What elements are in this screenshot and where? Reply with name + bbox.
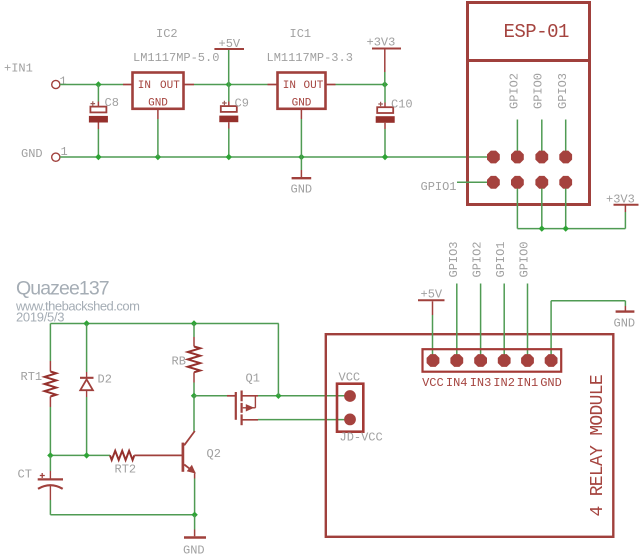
svg-text:LM1117MP-3.3: LM1117MP-3.3 — [267, 51, 353, 65]
bottom rail wire — [50, 514, 194, 516]
svg-text:2019/5/3: 2019/5/3 — [16, 310, 64, 325]
wire +5V to VCC pad — [432, 315, 434, 361]
svg-text:RT2: RT2 — [115, 463, 137, 477]
svg-text:GND: GND — [614, 317, 636, 331]
pin stub RB bottom — [193, 372, 195, 382]
junction C10 at rail — [382, 154, 388, 160]
wire junction down to C8 — [97, 85, 99, 102]
pin 1 of GND connector — [52, 153, 60, 161]
jumper pad JD-VCC — [344, 414, 356, 426]
junction RT1 at base rail — [47, 452, 53, 458]
wire ESP pad row2 col3 down — [541, 189, 543, 229]
svg-text:IC1: IC1 — [290, 27, 312, 41]
wire GPIO1 to pad — [457, 181, 493, 183]
jumper pad VCC — [344, 390, 356, 402]
svg-text:VCC: VCC — [339, 371, 361, 385]
ESP-01 pad row2 col1 — [487, 176, 500, 189]
junction IC2 GND at rail — [155, 154, 161, 160]
pin stub IC2 OUT — [184, 84, 195, 86]
wire +3V3 node down to C10 — [384, 85, 386, 103]
svg-text:GPIO1: GPIO1 — [421, 180, 457, 194]
wire rail down to RT1 — [49, 324, 51, 362]
wire GPIO3 to IN4 pad — [456, 284, 458, 361]
wire ESP pad row2 col2 down — [516, 189, 518, 229]
svg-text:GPIO3: GPIO3 — [556, 73, 570, 109]
svg-text:IN: IN — [283, 80, 296, 92]
capacitor CT plus sign — [40, 473, 45, 478]
ESP-01 pad row1 col1 — [487, 151, 500, 164]
transistor Q2 base bar — [182, 443, 185, 472]
supply symbol +5V relay bar — [418, 299, 445, 301]
wire ESP bottom horizontal to +3V3 — [517, 228, 625, 230]
wire gate node down to Q2 collector — [193, 396, 195, 432]
pin stub IC2 IN — [123, 84, 133, 86]
wire IC1 GND to rail — [300, 119, 302, 157]
svg-text:+3V3: +3V3 — [367, 36, 396, 50]
relay pad IN4 — [450, 354, 463, 367]
supply symbol +3V3 right bar — [614, 204, 639, 206]
junction emitter at bottom rail — [191, 512, 197, 518]
capacitor C10 plus sign — [378, 102, 383, 107]
relay pad GND — [545, 354, 558, 367]
mosfet Q1 source pin — [242, 419, 258, 421]
svg-text:IC2: IC2 — [156, 27, 178, 41]
voltage regulator IC2 body — [133, 73, 184, 109]
svg-text:C8: C8 — [105, 96, 119, 110]
wire +3V3 to rail — [384, 72, 386, 85]
resistor RT1 — [45, 372, 57, 397]
module 4 relay body — [326, 334, 614, 537]
svg-text:IN4: IN4 — [446, 376, 468, 390]
wire rail down to RB — [193, 324, 195, 338]
svg-text:VCC: VCC — [422, 376, 444, 390]
pin stub Q1 gate — [227, 395, 235, 397]
wire +IN1 to IC2 IN — [60, 84, 123, 86]
wire ESP pad row2 col4 down — [565, 189, 567, 229]
ESP-01 pad row1 col3 — [535, 151, 548, 164]
capacitor C9 bottom plate — [219, 116, 238, 123]
svg-text:Q2: Q2 — [207, 447, 221, 461]
wire rail down to GND symbol — [300, 157, 302, 170]
svg-text:GPIO0: GPIO0 — [532, 73, 546, 109]
svg-text:IN: IN — [138, 80, 151, 92]
ground symbol bar right — [616, 310, 635, 312]
svg-text:GPIO0: GPIO0 — [518, 241, 532, 277]
svg-text:C10: C10 — [391, 98, 413, 112]
svg-text:GND: GND — [292, 98, 312, 110]
relay pad IN1 — [521, 354, 534, 367]
mosfet Q1 channel segment bottom — [241, 414, 243, 425]
junction at C8 top — [95, 81, 101, 87]
capacitor C8 bottom plate — [89, 116, 108, 123]
wire IC2 GND to rail — [157, 119, 159, 157]
ESP-01 pad row2 col2 — [511, 176, 524, 189]
diode D2 triangle — [80, 379, 93, 390]
svg-text:GPIO2: GPIO2 — [507, 73, 521, 109]
capacitor C10 top plate — [377, 107, 393, 113]
transistor Q2 emitter diagonal — [184, 465, 195, 473]
wire IC1 OUT to +3V3 node — [336, 84, 385, 86]
ESP-01 pad row1 col2 — [511, 151, 524, 164]
pin stub IC1 IN — [268, 84, 278, 86]
svg-text:GPIO3: GPIO3 — [447, 241, 461, 277]
ESP-01 divider line — [468, 59, 590, 62]
svg-text:4 RELAY MODULE: 4 RELAY MODULE — [588, 375, 608, 516]
junction C8 at rail — [95, 154, 101, 160]
supply symbol +3V3 bar — [372, 48, 401, 50]
wire +5V node down to C9 — [228, 85, 230, 102]
wire GPIO3 label to pad — [565, 120, 567, 158]
svg-text:IN1: IN1 — [517, 376, 539, 390]
wire GND pad up — [550, 301, 552, 361]
wire GND down to symbol — [624, 301, 626, 306]
mosfet Q1 body link vertical — [254, 396, 256, 408]
svg-text:LM1117MP-5.0: LM1117MP-5.0 — [133, 51, 219, 65]
svg-text:CT: CT — [18, 468, 32, 482]
diode D2 cathode stub — [86, 372, 88, 378]
wire top rail down to drain node — [277, 324, 279, 396]
junction RB top — [191, 320, 197, 326]
relay pad IN2 — [498, 354, 511, 367]
wire gate node to Q1 gate — [194, 395, 227, 397]
resistor RB — [188, 347, 200, 373]
wire D2 to base rail — [86, 397, 88, 455]
pin RT2 to Q2 base — [134, 454, 182, 456]
svg-text:GND: GND — [291, 183, 313, 197]
ground symbol stub right — [624, 306, 626, 311]
relay pad IN3 — [474, 354, 487, 367]
svg-text:RT1: RT1 — [21, 370, 43, 384]
svg-text:OUT: OUT — [160, 80, 180, 92]
resistor RT2 — [110, 451, 134, 460]
svg-text:C9: C9 — [235, 97, 249, 111]
wire RB to gate node — [193, 383, 195, 396]
wire GPIO0 label to pad — [541, 120, 543, 158]
svg-text:RB: RB — [172, 355, 186, 369]
wire C10 to ground rail — [384, 123, 386, 129]
pin stub RB top — [193, 337, 195, 347]
relay pad VCC — [427, 354, 440, 367]
junction D2 top — [83, 320, 89, 326]
svg-text:D2: D2 — [98, 373, 112, 387]
wire RT1 to base rail — [49, 407, 51, 455]
mosfet Q1 drain pin — [242, 395, 258, 397]
mosfet Q1 body arrow — [246, 404, 255, 411]
pin stub RT1 bottom — [49, 397, 51, 408]
pin stub IC1 OUT — [326, 84, 336, 86]
junction D2 at base rail — [83, 452, 89, 458]
mosfet Q1 gate bar — [235, 392, 237, 420]
pin stub IC2 GND — [157, 109, 159, 119]
pin 1 of +IN1 connector — [52, 80, 60, 88]
voltage regulator IC1 body — [278, 73, 326, 109]
capacitor CT bottom stub — [49, 486, 51, 501]
wire drain node to VCC pad — [258, 395, 350, 397]
capacitor C8 plus sign — [91, 101, 96, 106]
mosfet Q1 channel segment middle — [241, 403, 243, 413]
junction drain node — [275, 393, 281, 399]
capacitor CT top stub — [49, 471, 51, 479]
ground symbol stub — [300, 170, 302, 177]
diode D2 anode stub — [86, 390, 88, 397]
wire IC2 OUT to +5V node — [194, 84, 268, 86]
junction col3 bottom — [539, 225, 545, 231]
svg-text:GND: GND — [183, 544, 205, 556]
capacitor C10 bottom plate — [376, 116, 395, 123]
capacitor CT curved plate — [38, 485, 63, 489]
wire GND horizontal to right — [551, 300, 625, 302]
wire CT to bottom rail — [49, 500, 51, 515]
svg-text:JD-VCC: JD-VCC — [340, 431, 383, 445]
capacitor C9 plus sign — [222, 101, 227, 106]
jumper connector JD-VCC outline — [337, 384, 363, 432]
capacitor C9 top plate — [221, 106, 237, 112]
supply pin stub +3V3 right — [624, 206, 626, 213]
wire up to +3V3 supply — [624, 212, 626, 229]
wire GPIO0 to IN1 pad — [527, 284, 529, 361]
svg-text:IN2: IN2 — [493, 376, 515, 390]
svg-text:Q1: Q1 — [246, 372, 260, 386]
transistor Q2 emitter arrow — [187, 465, 196, 474]
svg-text:+IN1: +IN1 — [4, 62, 33, 76]
junction +3V3 node — [382, 81, 388, 87]
mosfet Q1 body link horizontal — [243, 407, 256, 409]
wire base rail down to CT — [49, 455, 51, 471]
junction C9 at rail — [226, 154, 232, 160]
wire GPIO1 to IN2 pad — [503, 284, 505, 361]
transistor Q2 collector diagonal — [184, 431, 195, 445]
ground symbol stub bottom — [194, 530, 196, 537]
module ESP-01 body — [468, 3, 590, 205]
wire +5V to rail — [228, 50, 230, 85]
ground symbol bar — [292, 177, 312, 179]
svg-text:OUT: OUT — [304, 80, 324, 92]
junction +5V node — [226, 81, 232, 87]
svg-text:Quazee137: Quazee137 — [16, 278, 109, 300]
supply pin stub +3V3 — [384, 50, 386, 73]
wire GPIO2 label to pad — [516, 120, 518, 158]
svg-text:1: 1 — [60, 75, 67, 89]
pin stub IC1 GND — [300, 109, 302, 119]
wire top rail of driver circuit — [50, 323, 278, 325]
supply pin stub +5V relay — [432, 301, 434, 315]
relay header connector outline — [423, 349, 562, 372]
svg-text:GND: GND — [540, 376, 562, 390]
wire down to ground — [194, 515, 196, 530]
ground symbol bar bottom — [184, 536, 206, 539]
mosfet Q1 channel segment top — [241, 391, 243, 402]
ESP-01 pad row2 col4 — [559, 176, 572, 189]
ground rail wire — [60, 156, 494, 158]
supply symbol +5V bar — [214, 48, 244, 50]
pin stub RT1 top — [49, 361, 51, 372]
wire rail down to D2 — [86, 324, 88, 373]
junction IC1 GND at rail — [298, 154, 304, 160]
svg-text:GPIO1: GPIO1 — [494, 241, 508, 277]
svg-text:GPIO2: GPIO2 — [471, 241, 485, 277]
capacitor C8 top plate — [90, 107, 106, 113]
ESP-01 pad row2 col3 — [535, 176, 548, 189]
ESP-01 pad row1 col4 — [559, 151, 572, 164]
diode D2 cathode bar — [80, 377, 94, 379]
wire GPIO2 to IN3 pad — [480, 284, 482, 361]
svg-text:GND: GND — [21, 147, 43, 161]
wire C9 to ground rail — [228, 122, 230, 128]
svg-text:GND: GND — [148, 98, 168, 110]
junction col4 bottom — [563, 225, 569, 231]
wire Q2 emitter down — [194, 474, 196, 479]
wire C8 to ground rail — [97, 123, 99, 130]
capacitor CT top plate — [38, 478, 63, 480]
wire Q1 source to JD-VCC pad — [258, 419, 350, 421]
svg-text:ESP-01: ESP-01 — [504, 21, 570, 43]
svg-text:IN3: IN3 — [470, 376, 492, 390]
junction gate node — [191, 393, 197, 399]
base rail wire — [50, 454, 110, 456]
